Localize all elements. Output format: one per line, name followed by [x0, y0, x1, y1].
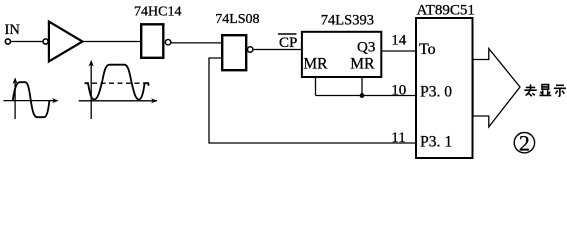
svg-text:14: 14: [391, 32, 407, 48]
svg-text:10: 10: [391, 82, 406, 98]
svg-text:P3.: P3.: [420, 83, 440, 100]
svg-text:74LS393: 74LS393: [321, 12, 374, 28]
svg-text:74LS08: 74LS08: [215, 12, 259, 27]
svg-text:74HC14: 74HC14: [134, 5, 181, 20]
svg-text:MR: MR: [303, 56, 328, 73]
svg-text:1: 1: [445, 134, 453, 151]
svg-text:To: To: [419, 41, 436, 58]
svg-text:Q3: Q3: [357, 40, 375, 56]
svg-text:MR: MR: [350, 56, 375, 73]
svg-text:IN: IN: [5, 22, 21, 38]
svg-text:AT89C51: AT89C51: [417, 2, 475, 18]
svg-text:2: 2: [519, 131, 530, 156]
svg-text:CP: CP: [279, 35, 297, 51]
svg-text:11: 11: [391, 130, 405, 146]
svg-text:P3.: P3.: [420, 134, 440, 151]
svg-text:0: 0: [444, 83, 452, 100]
